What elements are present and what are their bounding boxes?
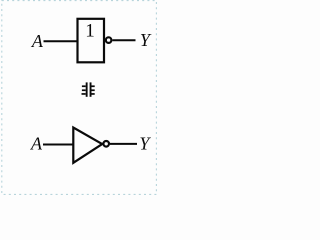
wire U2 bubble to Y (110, 143, 137, 145)
wire A to gate U2 input (43, 144, 73, 146)
wire A to gate U1 input (44, 40, 78, 42)
inversion bubble at U1 output (106, 37, 112, 43)
wire U1 bubble to Y (113, 39, 136, 41)
NOT gate U1 (IEC rectangular symbol) (78, 19, 105, 63)
NOT gate U2 (triangle distinctive-shape symbol) (73, 128, 102, 163)
svg-text:A: A (30, 133, 43, 153)
inversion bubble at U2 output (103, 141, 109, 147)
svg-text:1: 1 (85, 21, 95, 42)
svg-text:A: A (31, 31, 44, 51)
caption 非 (Chinese character NOT) drawn as strokes (82, 82, 95, 96)
